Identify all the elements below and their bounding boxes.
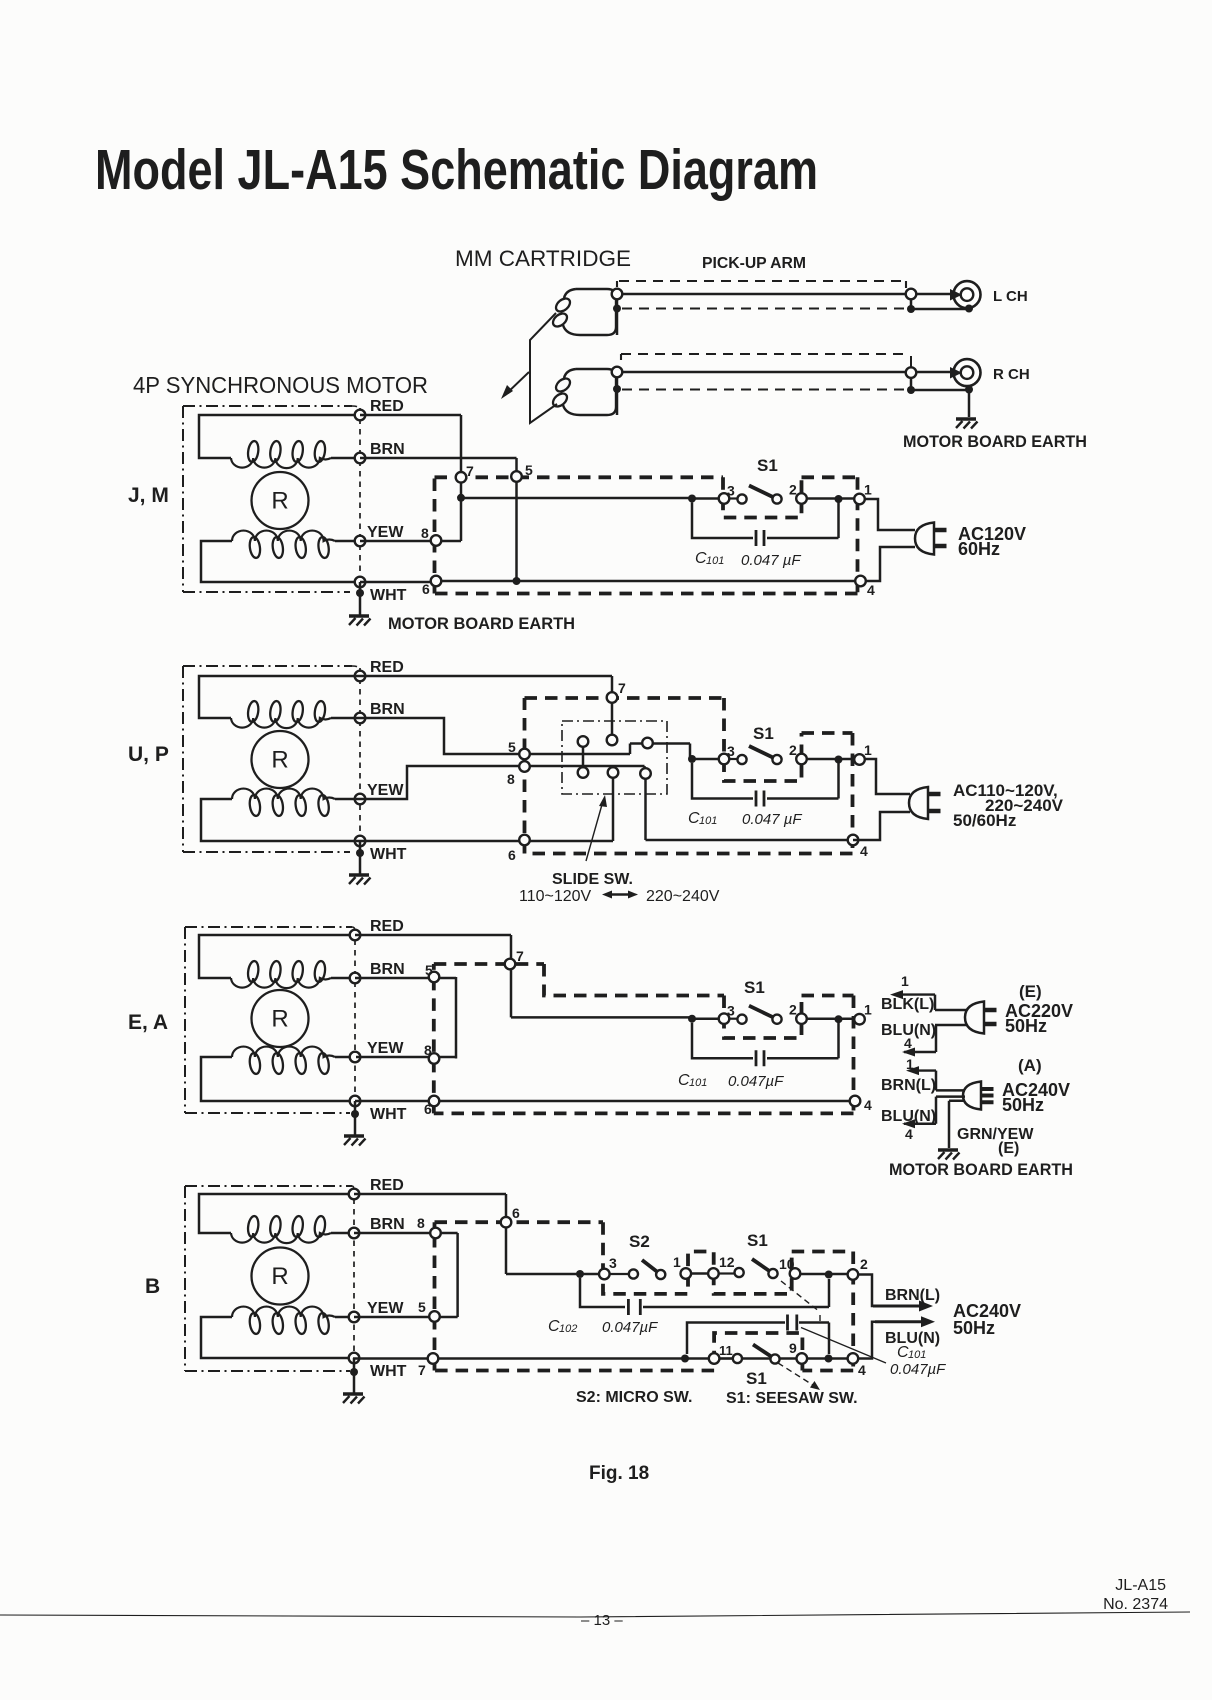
svg-text:2: 2 (860, 1256, 868, 1272)
svg-text:50Hz: 50Hz (1005, 1016, 1047, 1036)
svg-text:MM CARTRIDGE: MM CARTRIDGE (455, 246, 631, 271)
wire EA brn to 5 (355, 977, 456, 1059)
svg-text:3: 3 (609, 1255, 617, 1271)
svg-text:101: 101 (908, 1349, 926, 1361)
svg-text:1: 1 (864, 1002, 872, 1018)
shield dash R bottom (622, 388, 906, 390)
svg-text:(A): (A) (1018, 1056, 1042, 1075)
motor unit E,A (128, 918, 407, 1146)
svg-text:J, M: J, M (128, 484, 169, 507)
svg-text:0.047µF: 0.047µF (890, 1361, 946, 1378)
terminal 5 B (429, 1311, 440, 1322)
wire UP wht to 6/E (356, 778, 613, 841)
svg-text:0.047 µF: 0.047 µF (742, 811, 802, 828)
svg-text:4: 4 (860, 843, 868, 859)
svg-text:8: 8 (507, 771, 515, 787)
plug UP (909, 787, 941, 819)
switch S1 (688, 482, 872, 505)
svg-text:5: 5 (425, 962, 433, 978)
svg-text:(E): (E) (1019, 982, 1042, 1001)
jack R CH (954, 359, 981, 386)
cartridge magnet bar (530, 313, 557, 423)
wire UP to plug bottom (853, 812, 910, 840)
svg-text:7: 7 (466, 463, 474, 479)
node JM junction brn/wht (513, 577, 521, 585)
plug A (963, 1082, 994, 1110)
slide switch link bar (582, 747, 585, 768)
svg-text:YEW: YEW (367, 524, 404, 541)
svg-text:S1: S1 (746, 1369, 767, 1388)
svg-text:8: 8 (421, 525, 429, 541)
svg-text:PICK-UP ARM: PICK-UP ARM (702, 255, 806, 272)
wire UP to plug top (865, 759, 910, 794)
wire B yew to 5 (354, 1316, 458, 1319)
terminal 5 EA (429, 972, 440, 983)
terminal 6 B (501, 1217, 512, 1228)
svg-text:6: 6 (508, 847, 516, 863)
terminal 8 JM (431, 535, 442, 546)
svg-text:6: 6 (512, 1205, 520, 1221)
svg-text:7: 7 (618, 680, 626, 696)
motor unit B (145, 1177, 407, 1404)
capacitor C101 B (687, 1323, 785, 1355)
terminal 7 UP (607, 692, 618, 703)
terminal 4 UP (848, 835, 859, 846)
svg-text:S2: MICRO SW.: S2: MICRO SW. (576, 1389, 692, 1406)
wire UP brn to 5 (356, 718, 690, 759)
switch S1 top pole (691, 1231, 848, 1279)
terminal 8 EA (429, 1053, 440, 1064)
node R arm hot (906, 367, 917, 378)
svg-text:102: 102 (559, 1323, 577, 1335)
svg-text:MOTOR BOARD EARTH: MOTOR BOARD EARTH (388, 614, 575, 633)
svg-text:BRN: BRN (370, 441, 405, 458)
terminal 5 JM (511, 471, 522, 482)
jack L CH (954, 281, 981, 308)
svg-text:2: 2 (789, 742, 797, 758)
svg-text:Model JL-A15 Schematic Diagram: Model JL-A15 Schematic Diagram (95, 138, 818, 202)
arrow BRN(L) (873, 1305, 923, 1308)
capacitor C101 (692, 503, 839, 547)
wire EA yew to 8 (356, 1056, 456, 1059)
svg-text:E, A: E, A (128, 1011, 168, 1034)
svg-text:110~120V: 110~120V (519, 888, 592, 905)
wire B wht bus (353, 1357, 849, 1360)
wire UP F to 4 (646, 778, 849, 840)
svg-text:101: 101 (699, 815, 717, 827)
svg-text:(E): (E) (998, 1140, 1019, 1157)
wire R terminal stem (616, 367, 619, 415)
svg-text:WHT: WHT (370, 587, 407, 604)
wire B brn to 8 (354, 1233, 458, 1317)
svg-text:1: 1 (901, 973, 909, 989)
shield dash L top (617, 281, 906, 288)
terminal 6 UP (519, 835, 530, 846)
terminal 5 UP (519, 749, 530, 760)
node R cart hot (612, 367, 623, 378)
svg-text:5: 5 (525, 462, 533, 478)
wire B red drop (354, 1194, 580, 1274)
svg-text:0.047 µF: 0.047 µF (741, 552, 801, 569)
wire B 2 to BRN (858, 1275, 875, 1307)
node JM junction red/yew (457, 494, 465, 502)
svg-text:YEW: YEW (367, 1300, 404, 1317)
power box UP (dashed) (525, 698, 853, 854)
motor unit J,M (128, 398, 407, 626)
svg-text:0.047µF: 0.047µF (728, 1073, 784, 1090)
svg-text:BRN: BRN (370, 701, 405, 718)
svg-text:8: 8 (424, 1042, 432, 1058)
shield dash L bottom (622, 307, 906, 309)
switch S1 (688, 1002, 872, 1025)
terminal 8 B (430, 1228, 441, 1239)
svg-text:12: 12 (719, 1254, 735, 1270)
callout slide sw (586, 801, 603, 861)
svg-text:BLU(N): BLU(N) (881, 1108, 936, 1125)
wire GRN/YEW earth (948, 1101, 951, 1148)
svg-text:S1: SEESAW SW.: S1: SEESAW SW. (726, 1390, 858, 1407)
svg-text:MOTOR BOARD EARTH: MOTOR BOARD EARTH (903, 432, 1087, 451)
svg-text:1: 1 (864, 742, 872, 758)
svg-text:7: 7 (516, 948, 524, 964)
wire JM brn to 5 (360, 458, 517, 581)
wire R gnd to jack (911, 378, 967, 390)
power box JM (dashed) (435, 477, 858, 593)
svg-text:WHT: WHT (370, 1363, 407, 1380)
svg-text:S1: S1 (747, 1231, 768, 1250)
wire R arm drop (910, 356, 912, 368)
terminal 6 JM (431, 576, 442, 587)
svg-text:R: R (271, 488, 288, 515)
wire JM red drop (360, 415, 461, 541)
svg-text:BLU(N): BLU(N) (885, 1330, 940, 1347)
svg-text:8: 8 (417, 1215, 425, 1231)
ground jack earth (956, 419, 978, 429)
footer rule (0, 1612, 1190, 1617)
cartridge motion arrow (505, 372, 529, 395)
wire BLK to plug (935, 1009, 967, 1012)
svg-text:R: R (271, 1006, 288, 1033)
power box EA (dashed) (434, 964, 854, 1113)
svg-text:WHT: WHT (370, 1106, 407, 1123)
wire EA red drop (355, 935, 692, 1017)
svg-text:3: 3 (727, 483, 735, 499)
wire L terminal stem (616, 288, 619, 335)
svg-text:S1: S1 (757, 456, 778, 475)
node L cart gnd (613, 305, 621, 313)
svg-text:4P SYNCHRONOUS MOTOR: 4P SYNCHRONOUS MOTOR (133, 372, 428, 398)
switch S1 bottom pole (681, 1340, 833, 1388)
shield dash R top (621, 354, 908, 360)
cartridge coil L (563, 289, 616, 335)
wire jack earth stem (968, 390, 971, 418)
svg-text:11: 11 (719, 1343, 733, 1358)
terminal 4 B (848, 1353, 859, 1364)
plug JM (915, 523, 947, 555)
wire L hot (617, 293, 953, 296)
node L cart hot (612, 289, 623, 300)
svg-text:220~240V: 220~240V (646, 888, 720, 905)
capacitor C102 (580, 1278, 625, 1307)
cartridge coil R (563, 369, 616, 415)
node R arm gnd (907, 386, 915, 394)
svg-text:10: 10 (779, 1256, 795, 1272)
node L arm hot (906, 289, 917, 300)
wire EA wht bus (355, 1100, 850, 1103)
svg-text:Fig. 18: Fig. 18 (589, 1463, 649, 1484)
svg-text:1: 1 (673, 1254, 681, 1270)
svg-text:BRN(L): BRN(L) (885, 1287, 940, 1304)
svg-text:BLU(N): BLU(N) (881, 1022, 936, 1039)
wire JM to plug top (865, 499, 915, 530)
svg-text:2: 2 (789, 1002, 797, 1018)
svg-text:S1: S1 (753, 724, 774, 743)
svg-text:SLIDE SW.: SLIDE SW. (552, 871, 633, 888)
svg-text:2: 2 (789, 482, 797, 498)
slide switch pins (578, 736, 589, 747)
svg-text:6: 6 (424, 1101, 432, 1117)
wires into plug A (936, 1090, 965, 1100)
wire R hot (617, 371, 953, 374)
svg-text:R CH: R CH (993, 366, 1030, 383)
svg-text:GRN/YEW: GRN/YEW (957, 1126, 1034, 1143)
terminal 7 EA (505, 959, 516, 970)
svg-text:3: 3 (727, 743, 735, 759)
svg-text:101: 101 (689, 1077, 707, 1089)
motor unit U,P (128, 659, 407, 885)
svg-text:1: 1 (864, 482, 872, 498)
wire B 4 to BLU (858, 1322, 877, 1359)
svg-text:BRN: BRN (370, 961, 405, 978)
svg-text:50/60Hz: 50/60Hz (953, 811, 1016, 830)
wire UP yew to 8 (356, 766, 645, 799)
svg-text:50Hz: 50Hz (1002, 1095, 1044, 1115)
svg-text:4: 4 (867, 582, 875, 598)
svg-text:RED: RED (370, 659, 404, 676)
gang link dashes bottom (778, 1363, 816, 1387)
terminal 8 UP (519, 761, 530, 772)
svg-text:RED: RED (370, 918, 404, 935)
svg-text:R: R (271, 1263, 288, 1290)
wire UP red drop (356, 676, 612, 734)
svg-text:YEW: YEW (367, 782, 404, 799)
svg-text:4: 4 (905, 1126, 913, 1142)
svg-text:5: 5 (508, 739, 516, 755)
svg-text:0.047µF: 0.047µF (602, 1319, 658, 1336)
svg-text:7: 7 (418, 1362, 426, 1378)
svg-text:WHT: WHT (370, 846, 407, 863)
svg-text:BRN(L): BRN(L) (881, 1077, 936, 1094)
svg-text:5: 5 (418, 1299, 426, 1315)
wire JM wht bus (360, 581, 857, 582)
power box B (dashed) (435, 1222, 854, 1370)
terminal 2 B (848, 1269, 859, 1280)
svg-text:4: 4 (864, 1097, 872, 1113)
svg-text:S1: S1 (744, 978, 765, 997)
plug E (965, 1002, 997, 1034)
svg-text:RED: RED (370, 1177, 404, 1194)
svg-text:RED: RED (370, 398, 404, 415)
wire JM yew to 8 (360, 540, 461, 543)
svg-text:BRN: BRN (370, 1216, 405, 1233)
wire JM to plug bottom (866, 547, 915, 581)
switch S2 micro (576, 1232, 691, 1279)
terminal 6 EA (429, 1096, 440, 1107)
terminal 4 JM (855, 576, 866, 587)
svg-text:101: 101 (706, 555, 724, 567)
svg-text:JL-A15: JL-A15 (1115, 1577, 1166, 1594)
node R cart gnd (613, 385, 621, 393)
svg-text:– 13 –: – 13 – (581, 1612, 623, 1629)
svg-text:No. 2374: No. 2374 (1103, 1596, 1168, 1613)
capacitor C101 (692, 763, 839, 807)
arrow BLU(N) (875, 1320, 925, 1323)
terminal 7 JM (456, 472, 467, 483)
svg-text:6: 6 (422, 581, 430, 597)
svg-text:BLK(L): BLK(L) (881, 996, 934, 1013)
svg-text:L CH: L CH (993, 288, 1028, 305)
terminal 4 EA (850, 1096, 861, 1107)
svg-text:3: 3 (727, 1003, 735, 1019)
svg-text:S2: S2 (629, 1232, 650, 1251)
svg-text:MOTOR BOARD EARTH: MOTOR BOARD EARTH (889, 1160, 1073, 1179)
terminal 7 B (428, 1353, 439, 1364)
svg-text:9: 9 (789, 1340, 797, 1356)
svg-text:U, P: U, P (128, 743, 169, 766)
svg-text:50Hz: 50Hz (953, 1318, 995, 1338)
gang link dashes top (781, 1281, 820, 1321)
svg-text:4: 4 (858, 1362, 866, 1378)
svg-text:YEW: YEW (367, 1040, 404, 1057)
wire JM S1 feed (461, 497, 692, 500)
switch S1 (688, 742, 872, 765)
svg-text:60Hz: 60Hz (958, 539, 1000, 559)
wire BLU to plug E (904, 1025, 967, 1052)
wire L gnd to jack (911, 299, 967, 309)
svg-text:B: B (145, 1275, 160, 1298)
svg-text:R: R (271, 747, 288, 774)
slide switch box (dash-dot) (562, 721, 667, 794)
callout C101 B (801, 1328, 886, 1364)
node L arm gnd (907, 305, 915, 313)
capacitor C101 (692, 1023, 839, 1066)
